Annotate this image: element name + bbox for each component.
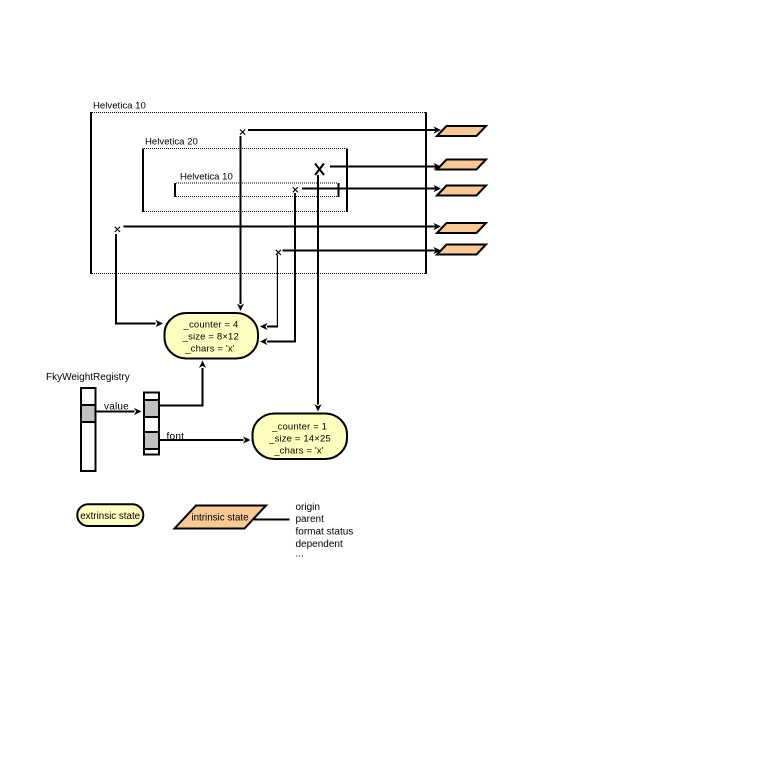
- registry column bar: [144, 393, 159, 455]
- wire drop from x1 to flyweight 1: [237, 136, 244, 311]
- arrow font to flyweight 2: [160, 436, 251, 443]
- wire from x5 to flyweight 1 right: [260, 255, 278, 331]
- box inner Helvetica 10 row: [175, 183, 339, 197]
- svg-text:origin: origin: [296, 502, 320, 513]
- svg-text:extrinsic state: extrinsic state: [80, 511, 140, 522]
- svg-text:FkyWeightRegistry: FkyWeightRegistry: [46, 372, 130, 383]
- flyweight object 2 (yellow stadium): [253, 414, 348, 460]
- arrow 4 to flyweight ref: [124, 223, 442, 230]
- svg-text:_chars = 'x': _chars = 'x': [184, 344, 235, 355]
- wire registry to flyweight 1 bottom: [160, 361, 206, 407]
- arrow value: [96, 408, 142, 415]
- wire drop from x3 to flyweight 1 right: [260, 193, 296, 345]
- svg-text:_counter = 1: _counter = 1: [271, 421, 327, 432]
- arrow 1 to flyweight ref: [248, 126, 441, 133]
- parallelogram glyph 4: [437, 223, 486, 233]
- arrow 5 to flyweight ref: [283, 247, 442, 254]
- box outer row (dotted top/bottom, solid sides): [91, 112, 426, 274]
- svg-text:_size = 14×25: _size = 14×25: [268, 433, 331, 444]
- svg-text:Helvetica 20: Helvetica 20: [145, 137, 198, 148]
- legend text list: [296, 502, 354, 560]
- glyph x mark 3: [293, 187, 298, 192]
- legend intrinsic state parallelogram: [175, 506, 267, 529]
- glyph big X: [315, 164, 324, 176]
- registry left bar: [81, 388, 96, 471]
- legend extrinsic state stadium: [77, 504, 143, 526]
- glyph x mark 4: [115, 227, 120, 232]
- svg-text:...: ...: [296, 549, 304, 560]
- svg-text:parent: parent: [296, 514, 325, 525]
- wire legend connector: [254, 519, 290, 521]
- svg-text:_counter = 4: _counter = 4: [183, 319, 239, 330]
- wire drop from big X to flyweight 2: [314, 175, 321, 412]
- parallelogram glyph 2: [437, 160, 486, 170]
- svg-text:Helvetica 10: Helvetica 10: [93, 100, 146, 111]
- parallelogram glyph 3: [437, 186, 486, 196]
- svg-text:_size = 8×12: _size = 8×12: [182, 331, 239, 342]
- svg-text:Helvetica 10: Helvetica 10: [180, 172, 233, 183]
- parallelogram glyph 1: [437, 126, 486, 136]
- flyweight object 1 (yellow stadium): [165, 313, 259, 359]
- glyph x mark 5: [276, 250, 281, 255]
- svg-text:_chars = 'x': _chars = 'x': [273, 445, 324, 456]
- svg-text:intrinsic state: intrinsic state: [191, 512, 249, 523]
- parallelogram glyph 5: [437, 245, 486, 255]
- wire from x4 to flyweight 1 left: [115, 234, 163, 327]
- box Helvetica 20 column: [143, 149, 347, 213]
- svg-text:format status: format status: [296, 526, 354, 537]
- arrow 2 to flyweight ref: [330, 163, 441, 170]
- arrow 3 to flyweight ref: [302, 185, 441, 192]
- glyph x mark 1: [240, 130, 245, 135]
